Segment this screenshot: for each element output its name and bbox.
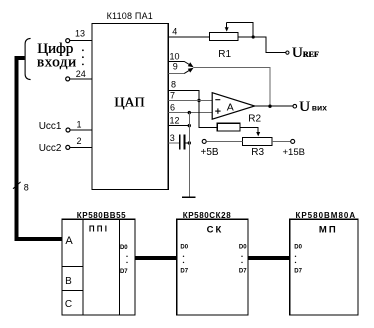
resistor R3 bbox=[243, 138, 273, 158]
svg-text:ППІ: ППІ bbox=[89, 225, 109, 234]
junction pin8 pin7 bbox=[197, 99, 200, 102]
pin 8 wire bbox=[168, 79, 199, 100]
svg-text:ЦАП: ЦАП bbox=[114, 96, 144, 111]
svg-text:D0: D0 bbox=[294, 245, 302, 251]
junction feedback output bbox=[268, 105, 271, 108]
chip U4 КР580СК28 box bbox=[177, 219, 248, 315]
svg-text:7: 7 bbox=[170, 91, 175, 101]
svg-text:3: 3 bbox=[170, 133, 175, 143]
junction pin12 ground bbox=[188, 124, 191, 127]
arrow pin9 to node bbox=[184, 68, 193, 74]
terminal UREF bbox=[286, 51, 289, 54]
svg-text:К1108 ПА1: К1108 ПА1 bbox=[107, 11, 153, 21]
wire R1 to UREF bbox=[238, 37, 286, 53]
resistor R1 bbox=[210, 33, 239, 60]
junction pin6 ground bbox=[188, 111, 191, 114]
brace digital inputs bbox=[25, 38, 31, 79]
output wire bbox=[255, 105, 293, 107]
arrow pin10 to node bbox=[184, 62, 193, 68]
R1 wiper arrow bbox=[225, 22, 229, 31]
svg-text:D0: D0 bbox=[239, 245, 247, 251]
pin 7 wire bbox=[168, 91, 212, 101]
svg-text:12: 12 bbox=[169, 116, 179, 126]
pin 13 bbox=[66, 28, 92, 42]
terminal +5V bbox=[202, 139, 206, 143]
svg-text:вих: вих bbox=[312, 102, 327, 112]
pin 10 wire bbox=[168, 51, 184, 61]
junction R1 wiper bbox=[252, 35, 255, 38]
svg-text:+5В: +5В bbox=[201, 147, 219, 158]
svg-text:13: 13 bbox=[75, 28, 85, 38]
wire R2 to R3 wiper bbox=[240, 128, 258, 134]
pin 12 wire bbox=[168, 116, 189, 126]
R1 wiper wire bbox=[227, 22, 254, 37]
U4 left dots bbox=[183, 256, 184, 263]
op-amp U2 bbox=[212, 93, 255, 120]
svg-text:входи: входи bbox=[37, 55, 77, 71]
junction capacitor ground bbox=[188, 141, 191, 144]
svg-text:D7: D7 bbox=[180, 268, 188, 274]
feedback wire to output bbox=[194, 68, 270, 107]
svg-text:Ucc1: Ucc1 bbox=[39, 121, 62, 132]
svg-text:A: A bbox=[65, 235, 73, 247]
bus chip2 to chip3 bbox=[248, 256, 290, 260]
ground bbox=[182, 196, 196, 198]
svg-text:8: 8 bbox=[24, 182, 29, 192]
svg-text:U: U bbox=[299, 99, 310, 115]
svg-text:B: B bbox=[65, 276, 72, 287]
pin 24 bbox=[66, 69, 92, 81]
chip U5 КР580ВМ80А box bbox=[290, 219, 358, 315]
svg-text:10: 10 bbox=[169, 51, 179, 61]
ground wire vertical bbox=[188, 113, 190, 198]
svg-text:КР580ВМ80А: КР580ВМ80А bbox=[295, 211, 356, 220]
terminal U vih bbox=[293, 104, 297, 108]
svg-text:A: A bbox=[227, 102, 234, 114]
svg-text:2: 2 bbox=[76, 136, 81, 146]
svg-text:R1: R1 bbox=[218, 49, 231, 60]
U4 right dots bbox=[241, 256, 242, 263]
svg-text:СК: СК bbox=[207, 225, 224, 236]
U5 dots bbox=[295, 256, 296, 263]
svg-text:9: 9 bbox=[173, 62, 178, 72]
svg-text:D7: D7 bbox=[120, 269, 128, 275]
capacitor C1 bbox=[180, 135, 189, 150]
svg-text:6: 6 bbox=[170, 103, 175, 113]
svg-text:24: 24 bbox=[76, 69, 86, 79]
pin 3 wire bbox=[168, 133, 179, 143]
DAC chip U1 К1108ПА1 box bbox=[92, 24, 168, 190]
svg-text:D7: D7 bbox=[239, 268, 247, 274]
svg-text:8: 8 bbox=[171, 79, 176, 89]
svg-text:D7: D7 bbox=[294, 268, 302, 274]
data bus thick wire bbox=[17, 58, 63, 239]
wire R3 to +15V bbox=[272, 140, 291, 142]
wire +5V to R3 bbox=[206, 140, 242, 142]
terminal +15V bbox=[291, 139, 295, 143]
Ucc1 pin 1 bbox=[39, 119, 92, 132]
svg-text:4: 4 bbox=[172, 27, 177, 37]
pin 4 wire bbox=[168, 27, 209, 38]
svg-text:C: C bbox=[65, 299, 72, 310]
svg-text:1: 1 bbox=[76, 119, 81, 129]
R3 wiper arrowhead bbox=[256, 132, 260, 136]
svg-text:Ucc2: Ucc2 bbox=[39, 143, 62, 154]
svg-text:КР580ВВ55: КР580ВВ55 bbox=[77, 211, 126, 220]
pin 9 wire bbox=[168, 62, 184, 74]
svg-text:МП: МП bbox=[319, 225, 338, 236]
chip U3 КР580ВВ55 box bbox=[62, 219, 135, 315]
svg-text:+15В: +15В bbox=[283, 147, 305, 158]
svg-text:D0: D0 bbox=[120, 245, 128, 251]
wire minus input to R2 bbox=[199, 101, 217, 128]
Ucc2 pin 2 bbox=[39, 136, 92, 154]
U3 dots bbox=[126, 256, 127, 263]
resistor R2 bbox=[217, 114, 261, 132]
pin 6 wire bbox=[168, 103, 212, 113]
svg-text:R2: R2 bbox=[248, 114, 261, 125]
svg-text:КР580СК28: КР580СК28 bbox=[183, 211, 232, 220]
bus width slash bbox=[13, 182, 21, 189]
bus chip1 to chip2 bbox=[135, 256, 177, 260]
svg-text:D0: D0 bbox=[180, 245, 188, 251]
ellipsis dots between pins 13 and 24 bbox=[82, 49, 84, 65]
svg-text:R3: R3 bbox=[251, 147, 264, 158]
